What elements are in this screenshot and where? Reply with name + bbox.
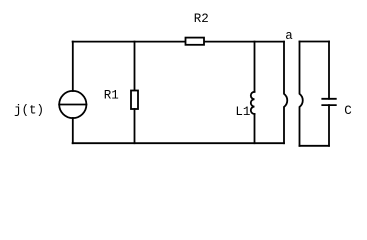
wire source branch lower — [72, 118, 74, 143]
current source j(t) — [59, 91, 86, 118]
svg-text:j(t): j(t) — [14, 104, 44, 118]
wire capacitor branch lower — [328, 105, 330, 146]
wire L1 branch upper — [254, 42, 256, 92]
svg-text:C: C — [344, 104, 352, 118]
inductor L1 — [251, 92, 255, 114]
capacitor C — [322, 99, 336, 105]
wire right edge of left loop with coupling bump — [284, 42, 287, 144]
wire left edge of right loop with coupling bump — [300, 42, 303, 146]
resistor R1 — [131, 91, 138, 110]
wire capacitor branch upper — [328, 42, 330, 99]
svg-text:L1: L1 — [235, 105, 250, 119]
svg-text:a: a — [285, 29, 293, 43]
wire L1 branch lower — [254, 114, 256, 143]
wire source branch upper — [72, 42, 74, 91]
wire right loop top — [300, 41, 330, 43]
wire R1 branch lower — [134, 109, 136, 143]
wire bottom (ground net of left loop) — [73, 142, 284, 144]
wire R1 branch upper — [134, 42, 136, 91]
wire top (node a net) — [73, 41, 284, 43]
wire right loop bottom — [300, 145, 330, 147]
resistor R2 — [186, 38, 205, 45]
svg-text:R1: R1 — [104, 88, 119, 102]
svg-text:R2: R2 — [194, 12, 209, 26]
